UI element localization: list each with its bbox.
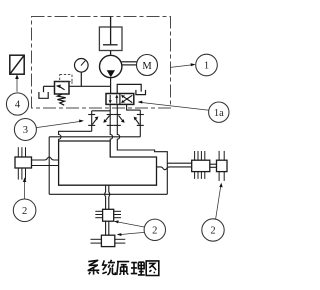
svg-text:4: 4 <box>15 100 21 111</box>
svg-text:2: 2 <box>22 206 27 217</box>
svg-text:1a: 1a <box>214 108 224 119</box>
svg-text:2: 2 <box>152 225 157 236</box>
svg-text:3: 3 <box>23 125 28 136</box>
svg-text:2: 2 <box>210 226 215 237</box>
svg-text:M: M <box>142 61 152 72</box>
svg-text:1: 1 <box>204 61 209 72</box>
